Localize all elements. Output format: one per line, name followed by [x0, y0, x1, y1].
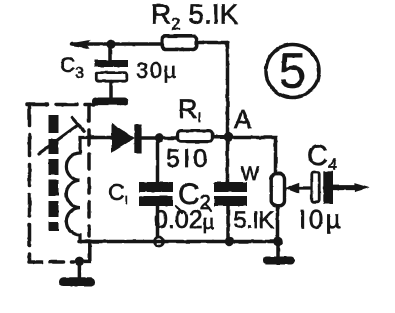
input arrow (antenna terminal) — [70, 41, 88, 48]
wire to right ground — [276, 242, 280, 258]
svg-text:C3: C3 — [60, 54, 84, 82]
node junction (shield to ground) — [75, 257, 84, 266]
shield dashed box bottom — [29, 260, 74, 264]
svg-text:A: A — [234, 104, 252, 134]
wire R1 to node A — [214, 135, 226, 139]
shield dashed box right — [87, 106, 91, 236]
wire node A to W pot — [233, 138, 276, 173]
svg-text:5: 5 — [279, 45, 306, 99]
svg-text:30µ: 30µ — [136, 58, 178, 83]
node junction (diode / R1 / C1) — [155, 133, 164, 142]
ground (left) — [59, 277, 95, 286]
node junction (pot to rail / ground) — [273, 237, 282, 246]
shield dashed box top — [27, 103, 94, 107]
figure number circle 5 — [266, 45, 319, 98]
potentiometer W body — [271, 174, 284, 206]
core adjustment arrow — [39, 125, 78, 154]
ground (right) — [263, 257, 295, 265]
open junction (C1 to rail) — [154, 237, 163, 246]
label C2 leader ticks — [176, 204, 211, 213]
ground (C3) — [92, 98, 128, 106]
wire coil to diode — [88, 136, 113, 140]
svg-text:R2 5.IK: R2 5.IK — [151, 0, 239, 34]
svg-text:C4: C4 — [307, 140, 337, 174]
output wire with arrow — [333, 185, 358, 190]
svg-text:RI: RI — [178, 94, 201, 125]
wire W bottom to rail — [276, 207, 280, 240]
capacitor C2 — [214, 182, 247, 239]
svg-text:I0µ: I0µ — [299, 204, 343, 234]
shield dashed box left — [28, 105, 32, 262]
wire R2 to corner — [199, 41, 228, 45]
wire rail to left ground (down jog) — [79, 242, 89, 261]
wire junction to left ground bar — [78, 263, 82, 277]
node junction (C2 to rail) — [225, 237, 234, 246]
wire bottom rail — [79, 240, 278, 244]
svg-text:W: W — [241, 164, 259, 185]
capacitor C3 — [95, 45, 128, 98]
core adjustment arrow T-bar — [72, 118, 84, 131]
svg-text:CI: CI — [108, 179, 128, 207]
node junction top (C3 tap) — [106, 40, 115, 49]
wire top rail (input to R2) — [72, 42, 161, 46]
inductor L1 (antenna coil) — [66, 138, 97, 242]
ferrite core (dashed black bar) — [49, 115, 59, 231]
node A — [224, 132, 234, 142]
capacitor C4 — [312, 171, 333, 204]
capacitor C1 — [139, 143, 173, 238]
potentiometer wiper arrow — [297, 186, 312, 189]
diode D1 — [113, 125, 177, 154]
svg-text:5.IK: 5.IK — [234, 207, 275, 234]
resistor R2 — [162, 36, 197, 50]
wire vertical from top rail down to node A and C2 — [226, 43, 230, 183]
resistor R1 — [178, 131, 213, 142]
svg-text:5I0: 5I0 — [166, 145, 210, 173]
